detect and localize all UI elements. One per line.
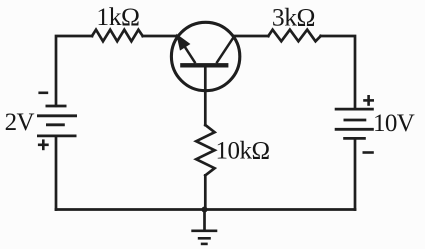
wire: transistor to R2 [234, 35, 268, 38]
resistor R 1kΩ zigzag [92, 30, 143, 42]
wire: R1 to transistor [143, 35, 177, 38]
svg-text:2V: 2V [5, 109, 35, 136]
resistor R 3kΩ zigzag [268, 30, 320, 42]
wire: top-left corner + left vertical to 2V battery [56, 36, 92, 106]
wire: 10k to bottom rail [204, 175, 207, 209]
battery 2V minus sign [38, 92, 48, 95]
svg-text:10kΩ: 10kΩ [216, 137, 270, 164]
resistor R 10kΩ vertical zigzag [196, 125, 214, 175]
transistor Q1: base bar [180, 63, 228, 67]
svg-text:3kΩ: 3kΩ [272, 2, 315, 31]
transistor Q1: collector diagonal [216, 36, 234, 64]
wire: left vertical below 2V battery [55, 136, 58, 210]
battery 2V plates [37, 106, 77, 136]
battery 10V plates [335, 109, 374, 138]
node: bottom junction dot [202, 207, 208, 213]
battery 10V minus sign [363, 151, 374, 154]
ground symbol [191, 231, 217, 244]
wire: top-right corner + right vertical to 10V battery [321, 36, 355, 109]
wire: transistor base lead down to 10k [204, 66, 207, 125]
wire: ground stub [203, 210, 206, 231]
battery 2V plus sign [38, 139, 49, 150]
svg-text:1kΩ: 1kΩ [96, 2, 139, 31]
transistor Q1: circle [171, 22, 239, 90]
transistor Q1: emitter diagonal with arrow [177, 35, 195, 63]
wire: right vertical below 10V battery [354, 138, 357, 209]
battery 10V plus sign [363, 95, 374, 106]
wire: bottom rail [56, 208, 355, 211]
svg-text:10V: 10V [373, 110, 415, 137]
